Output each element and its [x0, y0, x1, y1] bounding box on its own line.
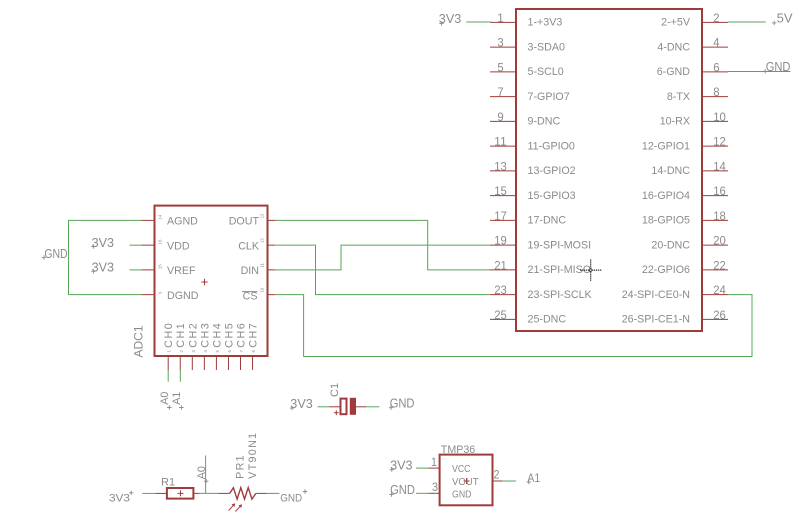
- svg-text:3-SDA0: 3-SDA0: [528, 41, 565, 53]
- ADC1 pin number 16: [158, 239, 163, 244]
- svg-text:ADC1: ADC1: [132, 325, 146, 357]
- ADC1 pin name CS: [242, 290, 258, 302]
- ground GND at J1 pin 6: [763, 59, 791, 74]
- ADC1 pin number 12: [260, 213, 265, 218]
- TMP36 pin name VOUT: [452, 476, 479, 488]
- J1 pin name 4-DNC: [657, 41, 690, 53]
- svg-text:3V3: 3V3: [439, 11, 462, 26]
- svg-text:18-GPIO5: 18-GPIO5: [642, 215, 690, 227]
- J1 pin 15 stub + pin number: [490, 184, 516, 198]
- svg-text:12: 12: [713, 135, 726, 149]
- svg-text:CLK: CLK: [238, 240, 260, 252]
- ADC1 pin CH7 stub: [252, 356, 254, 370]
- wire PR1 to GND: [267, 492, 280, 494]
- svg-text:20-DNC: 20-DNC: [651, 239, 690, 251]
- J1 pin name 22-GPIO6: [642, 264, 690, 276]
- svg-text:9: 9: [158, 291, 163, 294]
- wire CLK to J1 pin23 (SPI-SCLK): [275, 245, 490, 295]
- ADC1 pin number 15: [158, 264, 163, 269]
- svg-text:10-RX: 10-RX: [660, 116, 690, 128]
- svg-text:DGND: DGND: [167, 290, 199, 302]
- svg-text:26-SPI-CE1-N: 26-SPI-CE1-N: [622, 314, 690, 326]
- PR1 right lead: [256, 492, 267, 494]
- svg-text:24-SPI-CE0-N: 24-SPI-CE0-N: [622, 289, 690, 301]
- ADC1 pin name VDD: [167, 240, 190, 252]
- ADC1 pin number 14: [158, 214, 163, 219]
- ADC1 pin CH1 stub: [179, 356, 181, 370]
- wire 3V3 to VDD: [130, 244, 142, 246]
- ADC1 pin number 7: [239, 350, 244, 353]
- ground GND at TMP36: [389, 482, 415, 497]
- J1 pin 11 stub + pin number: [490, 135, 516, 149]
- svg-text:3: 3: [191, 350, 196, 353]
- ADC1 pin name DIN: [241, 265, 259, 277]
- svg-text:13: 13: [260, 238, 265, 243]
- svg-text:14: 14: [158, 214, 163, 219]
- svg-text:2: 2: [494, 468, 500, 482]
- J1 pin 18 stub + pin number: [702, 209, 728, 223]
- wire CS to J1 pin24 (SPI-CE0-N): [275, 295, 752, 357]
- ground GND at ADC: [42, 246, 68, 261]
- svg-text:12-GPIO1: 12-GPIO1: [642, 140, 690, 152]
- J1 pin 4 stub + pin number: [702, 36, 728, 50]
- J1 pin name 23-SPI-SCLK: [528, 289, 593, 301]
- svg-text:GND: GND: [452, 488, 472, 500]
- svg-text:24: 24: [713, 283, 726, 297]
- J1 pin name 10-RX: [660, 116, 690, 128]
- R1 origin cross: [178, 490, 184, 496]
- TMP36 pin 1 stub: [428, 467, 439, 469]
- wire junction to A0 label: [205, 456, 207, 494]
- resistor R1 body: [167, 488, 194, 499]
- ADC1 pin CH6 stub: [240, 356, 242, 370]
- ADC1 pin number 8: [251, 350, 256, 353]
- svg-text:CH1: CH1: [175, 323, 187, 348]
- svg-text:2: 2: [713, 11, 720, 25]
- J1 pin 10 stub + pin number: [702, 110, 728, 124]
- supply 3V3 at J1 pin 1: [439, 11, 462, 26]
- J1 pin 13 stub + pin number: [490, 159, 516, 173]
- svg-text:C1: C1: [329, 383, 341, 397]
- TMP36 pin name VCC: [452, 463, 471, 475]
- value VT90N1 (rotated): [247, 433, 259, 479]
- ADC1 origin cross: [201, 279, 207, 285]
- wire CH0 to A0: [167, 370, 169, 382]
- svg-text:CH4: CH4: [211, 323, 223, 348]
- supply 3V3 at TMP36: [390, 457, 413, 472]
- svg-text:12: 12: [260, 213, 265, 218]
- svg-text:11: 11: [260, 263, 265, 268]
- J1 pin name 25-DNC: [528, 314, 567, 326]
- svg-text:5: 5: [215, 350, 220, 353]
- ADC1 pin name CH6: [236, 323, 248, 348]
- svg-text:2: 2: [179, 350, 184, 353]
- svg-text:4: 4: [713, 36, 720, 50]
- ADC1 left pin VREF stub: [142, 269, 155, 271]
- J1 pin 6 stub + pin number: [702, 60, 728, 74]
- svg-text:11: 11: [494, 135, 507, 149]
- supply 3V3 at VDD: [91, 235, 114, 250]
- svg-text:A1: A1: [171, 392, 183, 405]
- node A0 at divider: [196, 466, 209, 483]
- svg-text:25-DNC: 25-DNC: [528, 314, 567, 326]
- TMP36 pin 3 stub: [428, 492, 439, 494]
- ADC1 right pin CS stub: [268, 294, 276, 296]
- J1 pin name 16-GPIO4: [642, 190, 690, 202]
- wire DOUT to J1 pin21 (SPI-MISO): [275, 220, 490, 270]
- ADC1 left pin VDD stub: [142, 244, 155, 246]
- supply 3V3 at C1: [290, 396, 313, 411]
- label PR1 (rotated): [235, 455, 247, 479]
- ADC1 pin number 5: [215, 350, 220, 353]
- svg-text:3V3: 3V3: [92, 235, 115, 250]
- ADC1 pin name CH3: [199, 323, 211, 348]
- ground GND at C1: [389, 395, 415, 410]
- svg-text:VT90N1: VT90N1: [247, 433, 259, 479]
- svg-text:7: 7: [497, 85, 504, 99]
- svg-text:26: 26: [713, 308, 726, 322]
- J1 pin name 2-+5V: [661, 17, 691, 29]
- wire 3V3 to TMP36 VCC: [416, 467, 428, 469]
- svg-text:21-SPI-MISO: 21-SPI-MISO: [528, 264, 592, 276]
- ADC1 left pin DGND stub: [142, 294, 155, 296]
- node A1 under ADC: [171, 392, 184, 410]
- mouse cursor crosshair: [580, 260, 601, 281]
- svg-text:25: 25: [494, 308, 507, 322]
- connector J1 raspberry-pi GPIO header outline: [516, 9, 702, 331]
- J1 pin name 12-GPIO1: [642, 140, 690, 152]
- wire 3V3 to pin1: [466, 21, 491, 23]
- capacitor C1 negative plate: [350, 398, 356, 415]
- ADC1 pin name CLK: [238, 240, 260, 252]
- capacitor C1 positive plate: [341, 399, 347, 415]
- svg-text:20: 20: [713, 234, 726, 248]
- ADC1 pin number 11: [260, 263, 265, 268]
- svg-text:17: 17: [494, 209, 507, 223]
- supply 5V at J1 pin 2: [772, 11, 793, 26]
- supply 3V3 at VREF: [91, 260, 114, 275]
- R1 left lead: [155, 492, 167, 494]
- ADC1 right pin CLK stub: [268, 244, 276, 246]
- J1 pin name 17-DNC: [528, 215, 567, 227]
- label R1: [161, 476, 175, 488]
- svg-text:22-GPIO6: 22-GPIO6: [642, 264, 690, 276]
- J1 pin 22 stub + pin number: [702, 258, 728, 272]
- svg-text:16: 16: [158, 239, 163, 244]
- svg-text:9-DNC: 9-DNC: [528, 116, 561, 128]
- wire TMP36 VOUT to A1: [503, 480, 516, 482]
- ADC1 pin CH3 stub: [203, 356, 205, 370]
- svg-text:19-SPI-MOSI: 19-SPI-MOSI: [528, 239, 592, 251]
- J1 pin name 9-DNC: [528, 116, 561, 128]
- wire GND loop AGND-DGND: [69, 220, 142, 294]
- ADC1 pin name CH7: [248, 323, 260, 348]
- svg-text:CH2: CH2: [187, 323, 199, 348]
- svg-text:1-+3V3: 1-+3V3: [528, 17, 563, 29]
- J1 pin name 15-GPIO3: [528, 190, 576, 202]
- svg-text:AGND: AGND: [167, 216, 198, 228]
- svg-text:23: 23: [494, 283, 507, 297]
- J1 pin name 14-DNC: [651, 165, 690, 177]
- svg-text:4-DNC: 4-DNC: [657, 41, 690, 53]
- label ADC1 (rotated): [132, 325, 146, 357]
- J1 pin 19 stub + pin number: [490, 234, 516, 248]
- ADC1 pin number 10: [260, 287, 265, 292]
- J1 pin name 8-TX: [667, 91, 690, 103]
- J1 pin 1 stub + pin number: [490, 11, 516, 25]
- wire DIN to J1 pin19 (SPI-MOSI): [275, 245, 490, 270]
- svg-text:21: 21: [494, 258, 507, 272]
- ground GND at PR1: [280, 489, 307, 504]
- svg-text:TMP36: TMP36: [441, 444, 476, 456]
- svg-text:GND: GND: [390, 395, 415, 410]
- TMP36 origin cross: [464, 478, 470, 484]
- svg-text:3: 3: [497, 36, 504, 50]
- svg-text:7-GPIO7: 7-GPIO7: [528, 91, 570, 103]
- J1 pin 24 stub + pin number: [702, 283, 728, 297]
- svg-text:11-GPIO0: 11-GPIO0: [528, 140, 575, 152]
- J1 pin 26 stub + pin number: [702, 308, 728, 322]
- J1 pin name 3-SDA0: [528, 41, 565, 53]
- svg-text:6-GND: 6-GND: [657, 66, 691, 78]
- svg-text:8: 8: [713, 85, 720, 99]
- J1 pin name 21-SPI-MISO: [528, 264, 592, 276]
- svg-text:DOUT: DOUT: [229, 216, 260, 228]
- svg-text:CH5: CH5: [223, 323, 235, 348]
- ADC1 pin name DGND: [167, 290, 199, 302]
- svg-text:8-TX: 8-TX: [667, 91, 690, 103]
- J1 pin 8 stub + pin number: [702, 85, 728, 99]
- svg-text:14: 14: [713, 159, 726, 173]
- J1 pin name 13-GPIO2: [528, 165, 576, 177]
- svg-text:16: 16: [713, 184, 726, 198]
- ADC1 left pin AGND stub: [142, 219, 155, 221]
- J1 pin 2 stub + pin number: [702, 11, 728, 25]
- svg-text:7: 7: [239, 350, 244, 353]
- svg-text:1: 1: [497, 11, 504, 25]
- ADC1 pin number 4: [203, 350, 208, 353]
- ADC1 pin number 6: [227, 350, 232, 353]
- J1 pin name 5-SCL0: [528, 66, 564, 78]
- svg-text:DIN: DIN: [241, 265, 259, 277]
- svg-text:R1: R1: [161, 476, 175, 488]
- node A0 under ADC: [159, 392, 172, 410]
- wire 3V3 to R1: [142, 492, 155, 494]
- J1 pin 25 stub + pin number: [490, 308, 516, 322]
- TMP36 pin number 3: [432, 480, 438, 494]
- J1 pin 12 stub + pin number: [702, 135, 728, 149]
- svg-text:3: 3: [432, 480, 438, 494]
- svg-text:A1: A1: [527, 471, 540, 485]
- svg-text:23-SPI-SCLK: 23-SPI-SCLK: [528, 289, 593, 301]
- svg-text:6: 6: [713, 60, 720, 74]
- ADC1 pin CH5 stub: [227, 356, 229, 370]
- PR1 left lead: [218, 492, 229, 494]
- svg-text:5-SCL0: 5-SCL0: [528, 66, 564, 78]
- svg-text:19: 19: [494, 234, 507, 248]
- wire pin6 to GND: [728, 71, 791, 73]
- TMP36 pin name GND: [452, 488, 472, 500]
- svg-text:9: 9: [497, 110, 504, 124]
- ADC1 pin CH0 stub: [167, 356, 169, 370]
- J1 pin name 11-GPIO0: [528, 140, 575, 152]
- supply 3V3 at R1: [109, 491, 133, 505]
- R1 right lead: [193, 492, 199, 494]
- svg-text:10: 10: [713, 110, 726, 124]
- svg-text:CH7: CH7: [248, 323, 260, 348]
- ADC1 pin name CH0: [163, 323, 175, 348]
- J1 pin name 7-GPIO7: [528, 91, 570, 103]
- svg-text:22: 22: [713, 258, 726, 272]
- ADC1 pin number 13: [260, 238, 265, 243]
- IC ADC1 body outline: [155, 206, 268, 356]
- wire CH1 to A1: [179, 370, 181, 382]
- IC TMP36 body outline: [440, 455, 493, 506]
- wire 3V3 to C1: [318, 406, 330, 408]
- svg-text:CH6: CH6: [236, 323, 248, 348]
- ADC1 pin name AGND: [167, 216, 198, 228]
- PR1 light arrow 2: [235, 504, 242, 511]
- J1 pin 17 stub + pin number: [490, 209, 516, 223]
- svg-text:2-+5V: 2-+5V: [661, 17, 691, 29]
- svg-text:VOUT: VOUT: [452, 476, 479, 488]
- svg-text:A0: A0: [159, 392, 171, 405]
- J1 pin name 26-SPI-CE1-N: [622, 314, 690, 326]
- J1 pin 3 stub + pin number: [490, 36, 516, 50]
- svg-text:10: 10: [260, 287, 265, 292]
- svg-text:VDD: VDD: [167, 240, 190, 252]
- svg-text:3V3: 3V3: [109, 492, 130, 504]
- label C1 (rotated): [329, 383, 341, 397]
- node A1 at TMP36: [527, 471, 541, 485]
- svg-text:5V: 5V: [777, 11, 793, 26]
- C1 left lead: [329, 406, 340, 408]
- svg-text:14-DNC: 14-DNC: [651, 165, 690, 177]
- C1 right lead: [356, 406, 366, 408]
- ADC1 pin name DOUT: [229, 216, 260, 228]
- J1 pin 20 stub + pin number: [702, 234, 728, 248]
- label TMP36: [441, 444, 476, 456]
- ADC1 pin number 9: [158, 291, 163, 294]
- svg-text:GND: GND: [280, 492, 302, 504]
- svg-text:16-GPIO4: 16-GPIO4: [642, 190, 690, 202]
- TMP36 pin number 2: [494, 468, 500, 482]
- J1 pin name 18-GPIO5: [642, 215, 690, 227]
- wire GND to TMP36 GND: [416, 492, 428, 494]
- J1 pin 9 stub + pin number: [490, 110, 516, 124]
- photoresistor PR1 zigzag: [230, 488, 256, 499]
- J1 pin 21 stub + pin number: [490, 258, 516, 272]
- svg-text:A0: A0: [196, 466, 208, 479]
- svg-text:6: 6: [227, 350, 232, 353]
- svg-text:3V3: 3V3: [92, 260, 115, 275]
- svg-text:VREF: VREF: [167, 265, 196, 277]
- svg-text:13-GPIO2: 13-GPIO2: [528, 165, 576, 177]
- ADC1 right pin DOUT stub: [268, 219, 276, 221]
- J1 pin name 19-SPI-MOSI: [528, 239, 592, 251]
- C1 plus mark: [334, 410, 339, 415]
- J1 pin name 20-DNC: [651, 239, 690, 251]
- svg-text:GND: GND: [766, 59, 791, 74]
- svg-text:15: 15: [158, 264, 163, 269]
- ADC1 pin name VREF: [167, 265, 196, 277]
- svg-text:13: 13: [494, 159, 507, 173]
- ADC1 pin number 2: [179, 350, 184, 353]
- svg-text:4: 4: [203, 350, 208, 353]
- J1 pin 14 stub + pin number: [702, 159, 728, 173]
- svg-text:18: 18: [713, 209, 726, 223]
- J1 pin 16 stub + pin number: [702, 184, 728, 198]
- svg-text:1: 1: [167, 350, 172, 353]
- ADC1 pin number 3: [191, 350, 196, 353]
- ADC1 pin name CH5: [223, 323, 235, 348]
- wire pin2 to 5V: [728, 21, 766, 23]
- J1 pin name 6-GND: [657, 66, 691, 78]
- wire R1 to junction: [200, 492, 219, 494]
- TMP36 pin number 1: [431, 455, 437, 469]
- ADC1 pin CH2 stub: [191, 356, 193, 370]
- PR1 light arrow 1: [229, 503, 236, 510]
- J1 pin 7 stub + pin number: [490, 85, 516, 99]
- J1 pin 23 stub + pin number: [490, 283, 516, 297]
- J1 pin name 1-+3V3: [528, 17, 563, 29]
- ADC1 right pin DIN stub: [268, 269, 276, 271]
- svg-text:PR1: PR1: [235, 455, 247, 479]
- svg-text:GND: GND: [390, 482, 415, 497]
- TMP36 pin 2 stub: [493, 480, 503, 482]
- ADC1 pin name CH4: [211, 323, 223, 348]
- ADC1 pin name CH1: [175, 323, 187, 348]
- svg-text:15-GPIO3: 15-GPIO3: [528, 190, 576, 202]
- J1 pin name 24-SPI-CE0-N: [622, 289, 690, 301]
- svg-text:17-DNC: 17-DNC: [528, 215, 567, 227]
- svg-text:15: 15: [494, 184, 507, 198]
- ADC1 pin number 1: [167, 350, 172, 353]
- wire 3V3 to VREF: [130, 269, 142, 271]
- svg-text:GND: GND: [44, 246, 67, 261]
- svg-text:8: 8: [251, 350, 256, 353]
- svg-text:CH3: CH3: [199, 323, 211, 348]
- ADC1 pin name CH2: [187, 323, 199, 348]
- svg-text:VCC: VCC: [452, 463, 471, 475]
- svg-text:3V3: 3V3: [290, 396, 313, 411]
- svg-text:5: 5: [497, 60, 504, 74]
- ADC1 pin CH4 stub: [215, 356, 217, 370]
- svg-text:CH0: CH0: [163, 323, 175, 348]
- wire C1 to GND: [366, 406, 379, 408]
- svg-text:1: 1: [431, 455, 437, 469]
- J1 pin 5 stub + pin number: [490, 60, 516, 74]
